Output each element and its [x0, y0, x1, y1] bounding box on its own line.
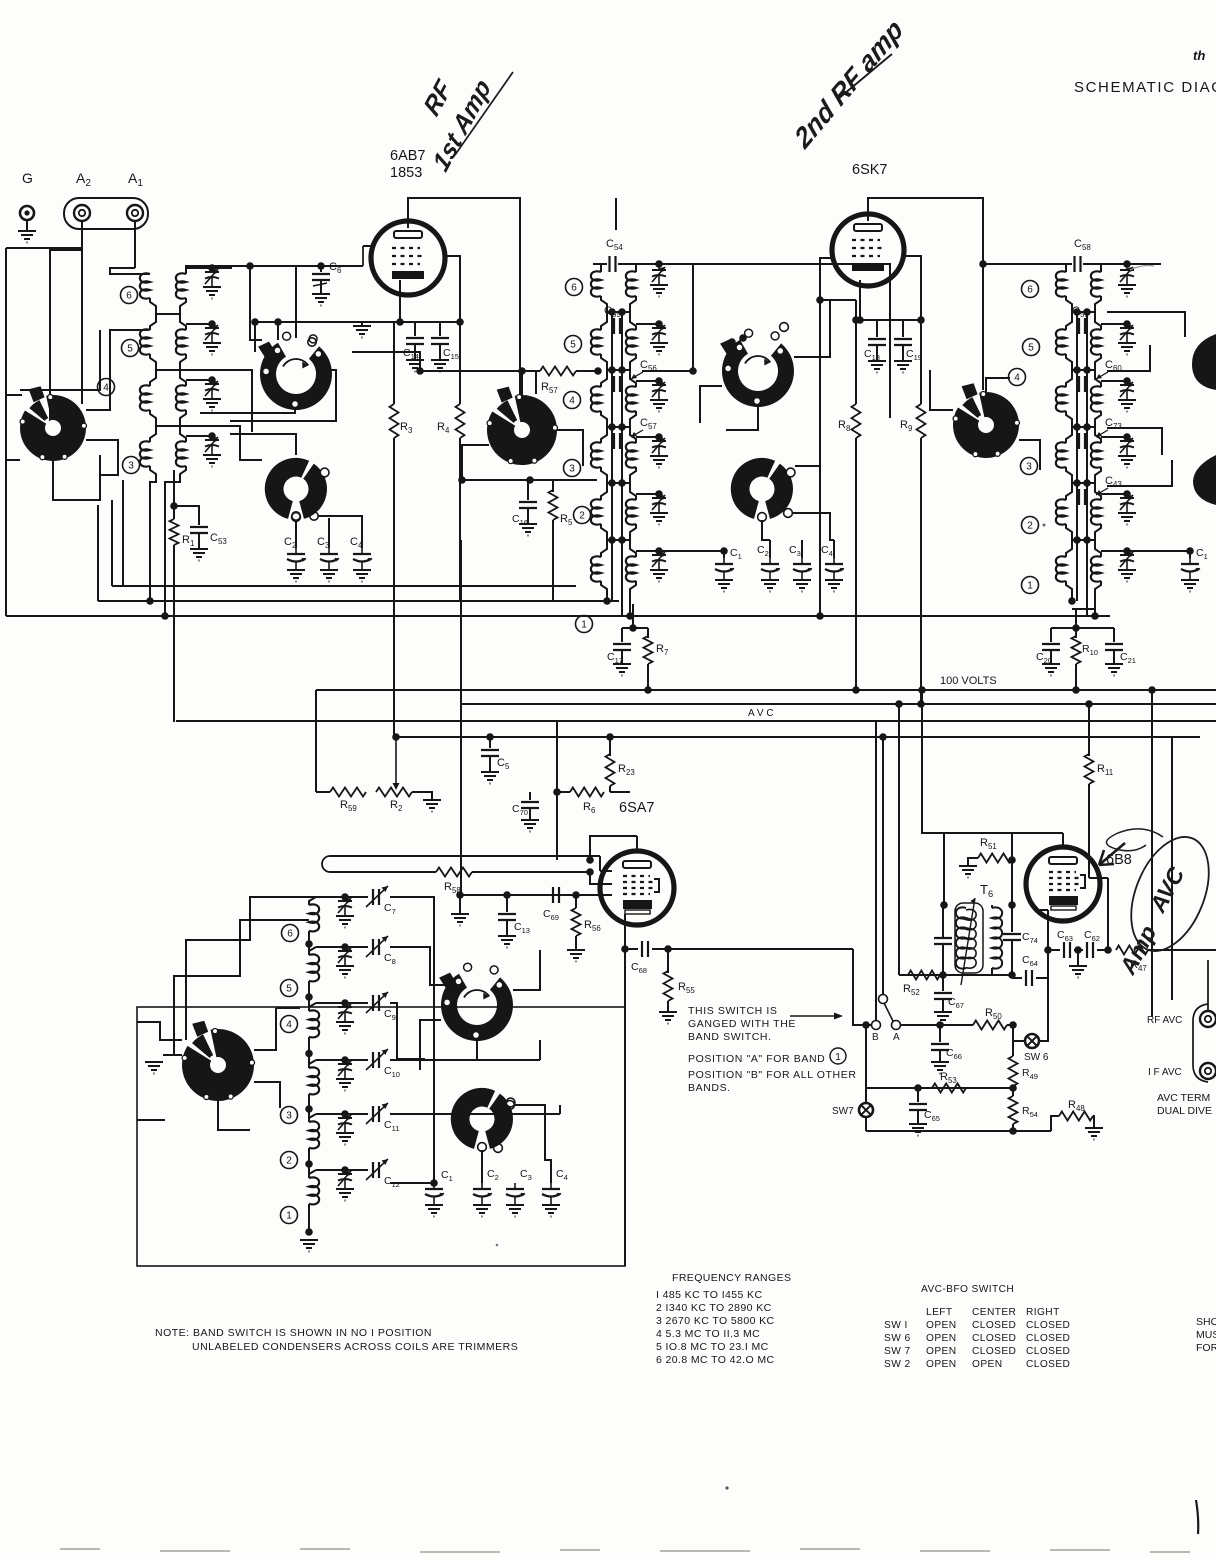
wire junction row: [607, 369, 630, 371]
ground: [336, 1133, 354, 1145]
wire to C6: [296, 265, 321, 267]
band contact 5: [1023, 339, 1040, 356]
junction: [392, 733, 400, 741]
svg-text:1853: 1853: [390, 165, 422, 181]
wire: [576, 894, 612, 896]
antenna coil secondary band 4: [176, 385, 186, 410]
wire: [575, 895, 577, 908]
wire: [991, 968, 993, 975]
band switch wafer S8 (partial): [1192, 334, 1216, 390]
wire: [316, 946, 345, 948]
wire rail: [611, 312, 613, 318]
wire: [1086, 496, 1088, 498]
junction: [1009, 1021, 1017, 1029]
band switch wafer S4: [487, 387, 558, 465]
junction: [939, 971, 947, 979]
annotation AVC Amp circled: [1099, 826, 1216, 963]
capacitor C62: [1087, 942, 1093, 958]
wire rail: [1076, 334, 1078, 376]
junction: [1008, 901, 1016, 909]
junction: [655, 260, 663, 268]
junction: [458, 476, 466, 484]
wire: [460, 540, 462, 704]
wire junction row: [156, 313, 180, 315]
wire: [876, 320, 878, 337]
resistor R49: [1009, 1056, 1018, 1086]
resistor R56: [572, 908, 581, 936]
wire: [621, 384, 623, 392]
svg-text:POSITION "A" FOR BAND: POSITION "A" FOR BAND: [688, 1053, 825, 1065]
wire: [1095, 581, 1101, 616]
svg-text:4: 4: [569, 396, 575, 407]
wire: [1088, 704, 1090, 756]
junction: [856, 316, 864, 324]
wire bank top: [1083, 263, 1161, 265]
wire: [255, 321, 460, 323]
ground: [203, 399, 221, 411]
wire hook: [601, 312, 607, 330]
wire: [621, 440, 623, 442]
capacitor C7: [373, 889, 379, 905]
junction: [146, 597, 154, 605]
wire top cap: [636, 836, 638, 851]
capacitor C13: [498, 914, 516, 920]
junction: [603, 597, 611, 605]
wire: [1127, 550, 1190, 552]
wire rail: [621, 392, 623, 433]
arrow C12: [366, 1159, 388, 1180]
oscillator shield box: [137, 1007, 625, 1266]
wire: [1086, 497, 1088, 505]
ground below C14: [406, 360, 424, 372]
wire: [642, 370, 693, 372]
wire: [1050, 650, 1052, 664]
wire: [866, 1130, 1051, 1132]
wire: [875, 721, 877, 1021]
wire: [1086, 433, 1088, 441]
junction: [852, 686, 860, 694]
wire: [986, 378, 1010, 392]
oscillator coil band 5: [309, 954, 319, 981]
ground at R48: [1085, 1128, 1103, 1140]
junction: [655, 490, 663, 498]
resistor R1: [170, 519, 179, 545]
junction: [170, 502, 178, 510]
AVC terminal panel: [1193, 1004, 1208, 1082]
junction: [456, 891, 464, 899]
junction: [940, 901, 948, 909]
wire hook: [1066, 427, 1072, 443]
capacitor C2: [287, 548, 306, 570]
svg-text:A: A: [893, 1032, 900, 1043]
svg-text:UNLABELED CONDENSERS ACROSS: UNLABELED CONDENSERS ACROSS COILS ARE TR…: [192, 1341, 518, 1353]
wire hook: [1095, 312, 1101, 330]
2nd IF coil secondary band 6: [1091, 271, 1101, 296]
wire: [1007, 1024, 1013, 1026]
wire: [345, 1169, 368, 1171]
wire: [940, 1024, 973, 1026]
ground: [650, 285, 668, 297]
wire: [801, 540, 803, 558]
wire from A1: [134, 221, 136, 268]
band switch wafer S7: [953, 383, 1020, 458]
contact: [506, 1101, 515, 1110]
wire: [917, 1110, 919, 1124]
bus wire AVC: [176, 720, 1216, 722]
contact: [292, 512, 300, 520]
wire: [1013, 1025, 1025, 1041]
wire rail: [1076, 312, 1078, 318]
wire rotor tail: [200, 409, 295, 413]
svg-text:LEFT: LEFT: [926, 1307, 953, 1318]
wire: [345, 946, 368, 948]
wire jog: [180, 354, 186, 370]
ground: [203, 455, 221, 467]
wire bank row to switch: [180, 426, 262, 460]
wire: [612, 383, 614, 385]
wire hook: [1095, 540, 1101, 557]
svg-text:CLOSED: CLOSED: [1026, 1359, 1070, 1370]
wire: [445, 1041, 477, 1060]
capacitor C18: [868, 339, 886, 345]
capacitor C58: [1075, 256, 1081, 272]
capacitor series: [1079, 489, 1085, 505]
svg-text:SHO: SHO: [1196, 1316, 1216, 1328]
wire: [920, 438, 922, 704]
wire: [163, 1054, 182, 1056]
junction: [1148, 686, 1156, 694]
ground: [1118, 285, 1136, 297]
wire IF output: [652, 948, 853, 950]
wire: [1040, 909, 1048, 911]
svg-text:6SA7: 6SA7: [619, 800, 654, 816]
capacitor C3 (osc): [506, 1183, 525, 1205]
antenna coil primary band 4: [140, 385, 150, 410]
junction: [341, 1110, 349, 1118]
junction: [618, 536, 626, 544]
svg-text:3: 3: [286, 1111, 292, 1122]
junction: [526, 476, 534, 484]
wire: [667, 1001, 669, 1012]
capacitor C66: [931, 1044, 949, 1050]
junction: [608, 479, 616, 487]
svg-text:1: 1: [286, 1211, 292, 1222]
wire: [345, 896, 368, 898]
wire hook: [180, 426, 186, 442]
wire coil to trimmer: [186, 435, 212, 437]
right margin text fragment: [1196, 1316, 1216, 1354]
1st IF coil secondary band 6: [626, 271, 636, 296]
wire: [632, 616, 634, 628]
wire rail: [1086, 312, 1088, 318]
wire: [621, 383, 623, 385]
resistor R47: [1116, 946, 1148, 955]
wire junction row: [1072, 539, 1095, 541]
junction: [1072, 686, 1080, 694]
wire: [1086, 325, 1088, 327]
ground: [203, 343, 221, 355]
wire: [621, 318, 623, 326]
junction: [655, 547, 663, 555]
bus wire: [397, 736, 1200, 738]
capacitor C4 (osc): [542, 1183, 561, 1205]
wire: [902, 345, 904, 361]
wire junction row: [1072, 426, 1095, 428]
wire over wafer: [20, 330, 100, 390]
wire: [632, 604, 634, 628]
tube V2 6SK7 2nd RF amplifier: [832, 214, 904, 286]
wire: [611, 441, 613, 449]
junction: [879, 733, 887, 741]
wire to wafer: [6, 394, 22, 396]
wire: [659, 550, 724, 552]
svg-text:2: 2: [579, 511, 585, 522]
wire: [820, 299, 856, 301]
wire: [1076, 318, 1078, 326]
junction: [608, 423, 616, 431]
wire: [26, 220, 28, 231]
svg-text:CLOSED: CLOSED: [1026, 1320, 1070, 1331]
bus wire: [461, 703, 1216, 705]
junction: [246, 262, 254, 270]
wire bank row to switch: [180, 370, 252, 432]
wire: [186, 897, 316, 1040]
tube V1 6AB7 RF amplifier: [371, 221, 445, 295]
svg-text:6: 6: [1027, 285, 1033, 296]
band switch wafer S3: [265, 458, 329, 522]
wire jog: [601, 467, 607, 483]
wire: [390, 897, 434, 1183]
capacitor C20: [1042, 644, 1060, 650]
band switch wafer S9 (partial): [1193, 455, 1216, 505]
junction: [917, 700, 925, 708]
resistor R8: [852, 404, 861, 438]
antenna coil secondary band 5: [176, 329, 186, 354]
junction: [503, 891, 511, 899]
wire: [991, 905, 993, 908]
wire junction row: [156, 369, 180, 371]
capacitor C70: [521, 802, 539, 808]
svg-text:CENTER: CENTER: [972, 1307, 1016, 1318]
svg-text:BAND SWITCH.: BAND SWITCH.: [688, 1031, 772, 1043]
capacitor C63: [1064, 942, 1070, 958]
wire: [723, 551, 725, 558]
svg-text:SW I: SW I: [884, 1320, 908, 1331]
ground: [473, 1205, 491, 1217]
junction: [816, 612, 824, 620]
trimmer across band 4 antenna coil: [205, 380, 219, 399]
svg-text:2: 2: [1027, 521, 1033, 532]
wire: [1011, 940, 1013, 975]
wire: [174, 920, 309, 1055]
wire: [1086, 318, 1088, 326]
wire: [615, 198, 617, 230]
svg-text:RF AVC: RF AVC: [1147, 1015, 1182, 1026]
svg-text:SCHEMATIC DIAGR: SCHEMATIC DIAGR: [1074, 79, 1216, 96]
ground below C5: [481, 772, 499, 784]
wire: [390, 1003, 425, 1059]
junction: [341, 999, 349, 1007]
oscillator coil band 4: [309, 1010, 319, 1037]
wire: [983, 263, 1058, 265]
wire hook: [601, 427, 607, 443]
wire: [461, 894, 612, 896]
arrow C73: [1096, 430, 1108, 437]
capacitor C21: [1105, 644, 1123, 650]
wire jog: [1095, 467, 1101, 483]
svg-text:DUAL DIVE: DUAL DIVE: [1157, 1105, 1212, 1117]
band contact 5: [122, 340, 139, 357]
wire: [212, 267, 232, 269]
junction: [1073, 308, 1081, 316]
antenna coil primary band 5: [140, 329, 150, 354]
wire: [122, 480, 124, 586]
wire: [1101, 436, 1127, 438]
wire: [529, 792, 531, 800]
wire wafer to C4: [318, 516, 362, 548]
contact: [780, 323, 789, 332]
trimmer across band 6 antenna coil: [205, 268, 219, 287]
svg-text:AVC-BFO SWITCH: AVC-BFO SWITCH: [921, 1284, 1014, 1295]
wire: [1012, 977, 1022, 979]
trimmer across band 5 antenna coil: [205, 324, 219, 343]
wire hook: [180, 314, 186, 330]
ground below C70: [521, 820, 539, 832]
wire 6AB7 grid left: [363, 245, 372, 247]
wire: [575, 855, 577, 857]
band contact 2: [281, 1152, 298, 1169]
ground: [287, 570, 305, 582]
wire wafer bottom: [53, 455, 100, 500]
capacitor C1 (osc): [425, 1183, 444, 1205]
bus wire: [112, 585, 576, 587]
wire: [414, 344, 416, 360]
ground below C66: [931, 1062, 949, 1074]
svg-text:RIGHT: RIGHT: [1026, 1307, 1060, 1318]
ground below C65: [909, 1124, 927, 1136]
wire: [320, 266, 322, 272]
wire: [647, 664, 649, 690]
svg-text:5: 5: [286, 984, 292, 995]
wire: [459, 322, 461, 404]
trimmer band 2: [1120, 494, 1134, 513]
svg-text:4: 4: [103, 383, 109, 394]
wire jog: [601, 354, 607, 370]
wire: [316, 1059, 345, 1061]
svg-text:OPEN: OPEN: [926, 1320, 956, 1331]
wire jog: [1066, 296, 1072, 312]
wire: [599, 856, 601, 871]
capacitor series: [614, 318, 620, 334]
wire: [855, 438, 857, 690]
wire: [529, 808, 531, 820]
2nd IF coil primary band 2: [1056, 499, 1066, 524]
wire: [611, 326, 613, 334]
ground below osc coils: [300, 1240, 318, 1252]
oscillator coil band 6: [309, 904, 319, 931]
T6 primary winding inner: [966, 909, 976, 968]
paper speck: [1043, 524, 1046, 527]
ground below R55: [659, 1012, 677, 1024]
svg-text:5: 5: [1028, 343, 1034, 354]
wire hook: [150, 314, 156, 330]
oscillator coil band 2: [309, 1121, 319, 1148]
wire: [855, 320, 857, 404]
wire: [514, 1105, 551, 1183]
resistor R50: [973, 1021, 1007, 1030]
wire: [420, 370, 540, 372]
wire jog: [1066, 354, 1072, 370]
band switch wafer S12: [451, 1088, 515, 1152]
wire jog: [630, 296, 636, 312]
junction: [720, 547, 728, 555]
wire: [439, 344, 441, 360]
wire: [794, 300, 830, 357]
junction: [728, 338, 736, 346]
junction: [1008, 971, 1016, 979]
arrow C10: [366, 1049, 388, 1070]
wire hook: [1066, 483, 1072, 500]
resistor R9: [917, 404, 926, 438]
contact: [494, 1144, 503, 1153]
wire: [1051, 1116, 1059, 1131]
svg-text:3: 3: [128, 461, 134, 472]
wire: [611, 384, 613, 392]
wire: [308, 1094, 310, 1122]
capacitor C2 (osc): [473, 1183, 492, 1205]
ground: [650, 570, 668, 582]
junction: [621, 945, 629, 953]
ground below C13: [498, 936, 516, 948]
wire: [1089, 877, 1108, 879]
junction: [629, 624, 637, 632]
transformer T6 frame: [955, 903, 983, 973]
contact: [310, 512, 318, 520]
capacitor C67: [934, 993, 952, 999]
wire: [489, 737, 491, 748]
band contact 2: [1022, 517, 1039, 534]
junction: [655, 433, 663, 441]
band contact 5: [281, 980, 298, 997]
wire: [622, 627, 633, 629]
wire: [1072, 608, 1095, 610]
wire: [922, 690, 944, 833]
capacitor series: [614, 376, 620, 392]
wire wafer arm: [462, 445, 489, 480]
junction: [305, 1105, 313, 1113]
wire: [345, 1113, 368, 1115]
svg-text:OPEN: OPEN: [972, 1359, 1002, 1370]
wire coil to trimmer: [186, 323, 212, 325]
band switch wafer S5: [731, 458, 795, 522]
wire: [1074, 949, 1083, 951]
wire to rotary: [250, 266, 296, 338]
junction: [608, 366, 616, 374]
junction: [341, 1166, 349, 1174]
svg-text:4: 4: [1014, 373, 1020, 384]
svg-text:6: 6: [287, 929, 293, 940]
wire: [390, 1059, 540, 1061]
ground: [1118, 343, 1136, 355]
wire: [506, 895, 508, 912]
junction: [305, 940, 313, 948]
svg-text:G: G: [22, 170, 33, 186]
oscillator coil band 1: [309, 1177, 319, 1204]
trimmer band 1: [652, 551, 666, 570]
junction: [251, 318, 259, 326]
wire: [882, 737, 884, 995]
band contact 6: [282, 925, 299, 942]
